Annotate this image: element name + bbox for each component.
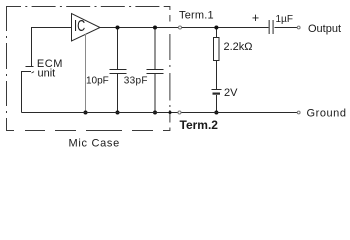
svg-text:Output: Output [308,23,341,35]
resistor R1 2.2k [216,28,218,90]
IC bottom pin [85,34,87,113]
mic case dash-dot border top [6,6,166,8]
wire IC output to Term.1 [100,27,178,29]
mic case dash-dot border left [6,6,8,130]
ECM unit capacitor element [21,67,34,72]
svg-text:Ground: Ground [307,107,347,119]
junction dot battery bottom [214,111,218,115]
ground rail wire [22,112,298,114]
junction dot C1 top [116,26,120,30]
svg-text:2.2kΩ: 2.2kΩ [224,41,253,53]
junction dot IC pin bottom [84,111,88,115]
svg-text:10pF: 10pF [86,76,109,87]
svg-text:Mic Case: Mic Case [69,138,120,150]
svg-text:Term.2: Term.2 [180,118,219,132]
svg-text:1µF: 1µF [276,14,293,25]
wire Term.1 to C3 [182,27,269,29]
capacitor C2 33pF [147,28,164,113]
junction dot C2 bottom [153,111,157,115]
wire C3 to output [275,27,298,29]
op-amp IC triangle [72,14,101,42]
svg-text:2V: 2V [224,87,238,99]
terminal Ground [297,111,300,114]
terminal Output [297,26,300,29]
svg-text:+: + [252,11,259,25]
terminal Term.2 [178,111,181,114]
svg-text:IC: IC [74,17,85,34]
junction dot R1 top [214,26,218,30]
mic case dashed border bottom [6,130,170,132]
terminal Term.1 [179,26,182,29]
battery B1 2V [212,89,222,91]
ECM bottom lead [21,72,23,113]
junction dot border crossing [169,111,172,114]
svg-text:33pF: 33pF [124,76,148,87]
mic case dash-dot border right [166,7,171,131]
wire top-left from ECM to IC [32,27,72,67]
svg-text:Term.1: Term.1 [179,10,214,22]
junction dot C1 bottom [116,111,120,115]
ECM tick mark [32,72,35,73]
capacitor C1 10pF [110,28,127,113]
junction dot C2 top [153,26,157,30]
svg-text:unit: unit [38,68,56,80]
